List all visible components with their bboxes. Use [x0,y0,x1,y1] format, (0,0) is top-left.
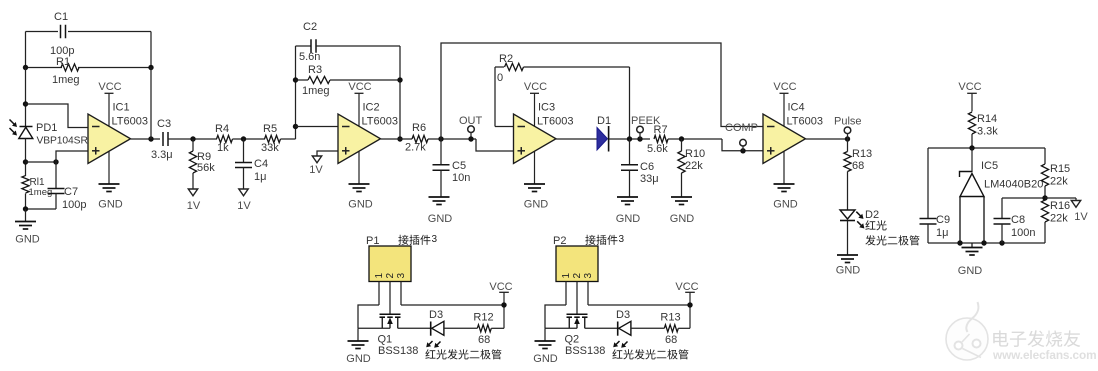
svg-text:2.7k: 2.7k [405,142,426,154]
svg-text:R10: R10 [685,148,705,160]
svg-text:R13: R13 [852,148,872,160]
resistor R16 [1041,200,1048,222]
svg-text:VCC: VCC [675,281,698,293]
svg-text:Pulse: Pulse [834,116,862,128]
svg-text:1μ: 1μ [936,227,948,239]
svg-text:0: 0 [497,72,503,84]
svg-text:R5: R5 [263,123,277,135]
svg-text:D3: D3 [616,309,630,321]
svg-text:BSS138: BSS138 [378,345,418,357]
svg-text:IC5: IC5 [981,160,998,172]
watermark logo [946,302,988,360]
svg-text:R14: R14 [977,113,997,125]
label red LED [425,349,435,359]
resistor R13 [631,327,664,329]
svg-text:LM4040B20: LM4040B20 [984,179,1043,191]
wire: PD1 anode down [25,139,27,177]
resistor R6 [412,135,428,142]
svg-text:10n: 10n [452,172,470,184]
svg-text:100p: 100p [62,199,86,211]
capacitor C1 [60,25,62,39]
svg-text:33μ: 33μ [640,173,659,185]
svg-text:VBP104SR: VBP104SR [37,136,88,147]
wire: inverting input jog IC1 [26,104,89,128]
svg-text:R4: R4 [215,123,229,135]
svg-text:LT6003: LT6003 [537,116,574,128]
svg-text:33k: 33k [261,142,279,154]
wire: +input node row [26,161,57,163]
svg-text:GND: GND [958,265,983,277]
svg-text:GND: GND [670,213,695,225]
wire: left vertical to PD1 [25,68,27,127]
svg-text:R7: R7 [654,124,668,136]
svg-text:VCC: VCC [348,81,371,93]
svg-text:VCC: VCC [489,281,512,293]
wire: bottom rail [928,242,1045,244]
svg-text:1: 1 [374,273,385,279]
svg-text:Q2: Q2 [565,334,580,346]
ground IC1 [108,148,110,184]
wire: IC3 output to D1 [556,138,597,140]
op-amp IC3 LT6003 [514,114,557,164]
svg-text:OUT: OUT [459,115,483,127]
wires: connector pins [565,282,567,306]
transistor Q1 [380,313,401,315]
svg-text:5.6n: 5.6n [299,51,320,63]
test point COMP [740,139,747,146]
svg-text:100n: 100n [1011,227,1035,239]
svg-text:D3: D3 [429,309,443,321]
svg-text:C4: C4 [254,158,268,170]
resistor R9 [192,139,194,151]
svg-text:22k: 22k [1050,176,1068,188]
ground P1 [357,328,359,341]
svg-text:22k: 22k [685,160,703,172]
node C4 [241,136,246,141]
svg-text:R6: R6 [412,122,426,134]
test point PEEK [637,126,644,133]
capacitor C4 [243,139,245,163]
node C8/R15/R16 [1042,195,1047,200]
svg-text:R1: R1 [56,56,70,68]
power VCC IC4 [780,92,789,94]
svg-text:56k: 56k [197,162,215,174]
svg-text:C2: C2 [303,21,317,33]
svg-text:VCC: VCC [958,81,981,93]
resistor R4 [217,135,233,142]
test point Pulse [844,127,851,134]
svg-text:R2: R2 [499,53,513,65]
resistor R14 [968,112,975,134]
wire: R5 to IC2 feedback vertical [295,46,297,139]
svg-text:IC4: IC4 [788,102,805,114]
photodiode PD1 [20,126,33,128]
wire: R2 loop right vertical [629,67,631,139]
svg-text:GND: GND [836,265,861,277]
svg-text:1V: 1V [309,164,323,176]
wire: IC1 output [131,138,161,140]
test point OUT [468,126,475,133]
op-amp IC2 LT6003 [338,114,381,164]
light arrows D3 [615,341,620,346]
svg-text:C5: C5 [452,160,466,172]
power VCC IC1 [105,92,114,94]
wire: +input jog IC3 [476,139,514,151]
ground IC5 [971,243,973,248]
ground D2 [837,254,858,256]
wire: +input jog IC4 [722,139,763,151]
svg-text:3: 3 [396,273,407,279]
label red LED D2 [865,220,875,230]
svg-text:68: 68 [478,334,490,346]
svg-text:5.6k: 5.6k [647,143,668,155]
wires: connector pins [378,282,380,306]
shunt reference IC5 LM4040 [971,148,973,172]
op-amp IC4 LT6003 [763,114,806,164]
wire: C1 top feedback row [26,31,59,33]
svg-text:LT6003: LT6003 [362,116,399,128]
watermark text [993,330,1008,346]
svg-text:GND: GND [428,213,453,225]
LED D2 [840,210,855,219]
svg-text:VCC: VCC [773,81,796,93]
svg-text:www.elecfans.com: www.elecfans.com [992,348,1097,362]
svg-text:1V: 1V [187,200,201,212]
connector P2 [556,246,598,282]
svg-text:3: 3 [619,234,625,245]
1V output [1045,197,1076,199]
ground P2 [544,328,546,341]
svg-text:Q1: Q1 [378,334,393,346]
capacitor C7 [55,162,57,189]
svg-text:68: 68 [665,334,677,346]
power VCC IC3 [530,92,539,94]
svg-text:2: 2 [572,273,583,279]
capacitor C8 [1002,197,1045,199]
svg-text:GND: GND [98,199,123,211]
svg-text:1V: 1V [1074,211,1088,223]
LED D3 [617,322,619,336]
wire: IC3 -input [495,126,514,128]
ground IC3 [534,148,536,184]
1V symbol IC2 +input [317,151,338,156]
resistor R5 [265,135,281,142]
svg-text:D1: D1 [597,115,611,127]
svg-text:1meg: 1meg [52,74,80,86]
light arrows D2 [856,212,862,218]
wire: +input jog IC1 [56,151,88,162]
node: feedback left [23,65,28,70]
node R9 [190,136,195,141]
svg-text:C8: C8 [1011,214,1025,226]
wire: top rail [928,147,1045,149]
diode D1 [597,128,608,151]
ground C6 [617,196,638,198]
capacitor C6 [629,139,631,165]
svg-text:C6: C6 [640,161,654,173]
svg-text:3: 3 [432,234,438,245]
resistor R3 [296,79,309,81]
svg-text:IC3: IC3 [538,102,555,114]
svg-text:3: 3 [583,273,594,279]
svg-text:P2: P2 [553,235,566,247]
svg-text:R15: R15 [1050,163,1070,175]
svg-text:R12: R12 [473,312,493,324]
svg-text:IC1: IC1 [113,102,130,114]
svg-text:GND: GND [15,234,40,246]
resistor R10 [681,139,683,151]
node R10 [679,136,684,141]
svg-text:3.3k: 3.3k [977,126,998,138]
ground C5 [429,196,450,198]
svg-text:1meg: 1meg [302,85,330,97]
wire: feedback right vertical [150,68,152,140]
resistor R2 [495,66,504,68]
resistor Rl1 [22,176,29,194]
wire: IC2 -input [296,126,339,128]
wire: bottom join [25,194,27,210]
svg-text:GND: GND [524,199,549,211]
svg-text:GND: GND [348,199,373,211]
light arrows D3 [428,341,433,346]
svg-text:BSS138: BSS138 [565,345,605,357]
wire: R2 loop left vertical [494,67,496,127]
svg-text:GND: GND [533,353,558,365]
node OUT junction [438,136,443,141]
svg-text:GND: GND [346,353,371,365]
svg-text:1k: 1k [217,142,229,154]
wires: source/drain rails [358,327,390,329]
svg-text:C3: C3 [157,118,171,130]
svg-text:3.3μ: 3.3μ [151,149,173,161]
svg-text:2: 2 [385,273,396,279]
VCC R14 [967,92,977,94]
svg-text:COMP: COMP [725,122,758,134]
VCC feed [685,291,695,293]
svg-text:P1: P1 [366,235,379,247]
svg-text:1μ: 1μ [254,171,266,183]
capacitor C5 [440,139,442,165]
svg-text:GND: GND [616,213,641,225]
svg-text:D2: D2 [865,209,879,221]
capacitor C2 [296,45,312,47]
connector P1 [369,246,411,282]
wire: OUT to IC4 top loop [441,43,763,139]
svg-text:VCC: VCC [524,81,547,93]
resistor R15 [1041,164,1048,186]
1V symbol R9 [188,189,197,196]
wire: feedback right vertical IC2 [399,46,401,139]
svg-text:1: 1 [561,273,572,279]
resistor R13 [847,139,849,152]
svg-text:R13: R13 [660,312,680,324]
wire: IC2 output [381,138,413,140]
svg-text:GND: GND [773,199,798,211]
svg-text:IC2: IC2 [363,102,380,114]
power VCC IC2 [355,92,364,94]
ground PD1 [25,209,27,222]
svg-text:VCC: VCC [98,81,121,93]
resistor R12 [444,327,477,329]
light arrows into PD1 [10,120,16,126]
resistor R1 [26,67,63,69]
1V symbol C4 [239,189,248,196]
svg-text:1V: 1V [237,200,251,212]
ground IC2 [358,148,360,184]
ground IC4 [783,148,785,184]
VCC feed [499,291,509,293]
svg-text:68: 68 [852,160,864,172]
wire: IC4 output Pulse [806,138,848,140]
svg-text:C7: C7 [64,186,78,198]
capacitor C9 [927,148,929,219]
svg-text:LT6003: LT6003 [112,116,149,128]
wire: D1 cathode to PEEK node [609,138,650,140]
label red LED [612,349,622,359]
wires: source/drain rails [545,327,577,329]
svg-text:22k: 22k [1050,213,1068,225]
svg-text:LT6003: LT6003 [787,116,824,128]
op-amp IC1 LT6003 [88,114,131,164]
LED D3 [430,322,432,336]
resistor R7 [654,135,668,142]
svg-text:R16: R16 [1050,200,1070,212]
transistor Q2 [567,313,588,315]
ground R10 [671,196,692,198]
svg-text:PD1: PD1 [36,122,57,134]
svg-text:R3: R3 [308,64,322,76]
svg-text:C1: C1 [54,11,68,23]
svg-text:C9: C9 [936,214,950,226]
capacitor C3 [162,132,164,146]
